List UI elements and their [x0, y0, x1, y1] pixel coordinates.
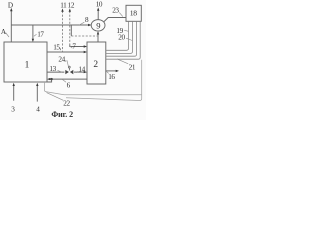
arrow 7 into block2 left	[84, 45, 87, 47]
branch stem to dashed net	[70, 25, 72, 36]
leader 23	[119, 13, 123, 17]
wire D: block1 top up to output arrow	[10, 11, 12, 43]
leader 14	[76, 71, 78, 72]
wire 23: circle 9 to block 18	[104, 18, 126, 22]
leader A	[6, 33, 10, 38]
wire 10: circle 9 top up to output arrow	[97, 10, 99, 20]
wire 7: corner into block2	[70, 45, 85, 47]
leader 20	[126, 38, 132, 40]
nested wires 19 20 21 from block 18 into block 2	[106, 21, 140, 59]
background	[0, 0, 146, 120]
wire 8: block1 branch to circle 9	[11, 24, 89, 26]
wire 6: block2 left to block1 right input	[50, 78, 88, 80]
arrow 17 down into block1 top	[32, 39, 34, 42]
wire 13: block1 right to valve	[47, 71, 64, 73]
arrow 14 into block2 left	[84, 71, 87, 73]
svg-text:15,: 15,	[53, 44, 61, 52]
block 2	[87, 42, 106, 84]
block 1	[4, 42, 47, 82]
arrow 6 left into block1 right	[47, 78, 50, 80]
junction dot net 6	[50, 78, 52, 80]
svg-text:23: 23	[112, 6, 119, 14]
leader 21	[117, 59, 128, 64]
wire 22: loop from block1 bottom around lower right	[45, 60, 142, 101]
svg-text:Фиг. 2: Фиг. 2	[51, 110, 73, 119]
arrow 10 up	[97, 7, 99, 10]
label leaders	[6, 13, 133, 101]
valve 24 bowtie	[65, 70, 73, 74]
leader 22	[47, 93, 64, 101]
arrow 4 up into block1 bottom	[36, 83, 38, 86]
leader 8	[79, 22, 84, 25]
wire 15: block1 right to block2 left	[47, 51, 85, 53]
svg-text:16: 16	[108, 73, 115, 81]
arrow 11 up	[61, 8, 63, 11]
arrow D up	[10, 8, 13, 11]
valve stem head	[68, 66, 70, 70]
leader 19	[124, 30, 128, 31]
svg-text:D: D	[8, 1, 13, 9]
svg-text:12: 12	[68, 1, 75, 9]
svg-text:2: 2	[93, 60, 98, 70]
leader 16	[107, 72, 109, 74]
leader 6	[63, 80, 67, 83]
leader 13	[58, 70, 63, 72]
svg-text:20: 20	[118, 34, 125, 42]
arrow 8 into circle left	[88, 24, 91, 26]
leader 24	[67, 60, 69, 67]
arrowheads	[10, 7, 119, 86]
wire 14: valve to block2 left	[74, 71, 85, 73]
input 3	[13, 85, 15, 101]
svg-text:13: 13	[49, 65, 56, 73]
svg-text:11: 11	[60, 1, 67, 9]
svg-text:1: 1	[25, 61, 30, 71]
leader 7	[70, 46, 72, 48]
svg-text:21: 21	[129, 63, 136, 71]
svg-text:9: 9	[96, 20, 100, 30]
arrow 15 into block2 left	[84, 51, 87, 53]
block 18	[126, 5, 141, 21]
labels	[1, 1, 136, 114]
arrow 12 up	[69, 8, 71, 11]
svg-text:10: 10	[96, 1, 103, 9]
dashed branch to circle 9 bottom	[71, 35, 97, 37]
svg-text:17: 17	[37, 31, 44, 39]
wire 16: block2 right output	[106, 70, 117, 72]
dashed wire 12	[69, 11, 71, 45]
svg-text:14: 14	[78, 65, 85, 73]
arrow 16 right	[116, 70, 119, 72]
svg-text:22: 22	[63, 100, 70, 108]
input 4	[36, 85, 38, 102]
dashed wire 11	[63, 11, 98, 52]
svg-text:24.: 24.	[58, 56, 66, 64]
arrow into circle 9 bottom	[97, 31, 99, 34]
summator circle 9	[91, 20, 105, 31]
svg-text:18: 18	[130, 9, 137, 18]
arrow 3 up into block1 bottom	[13, 83, 15, 86]
wire 17: branch down into block1 top	[32, 25, 34, 41]
wire: block2 top up into circle 9 bottom	[97, 32, 99, 42]
leader 17	[34, 34, 37, 36]
riser junction to block1 bottom stub	[47, 79, 52, 82]
